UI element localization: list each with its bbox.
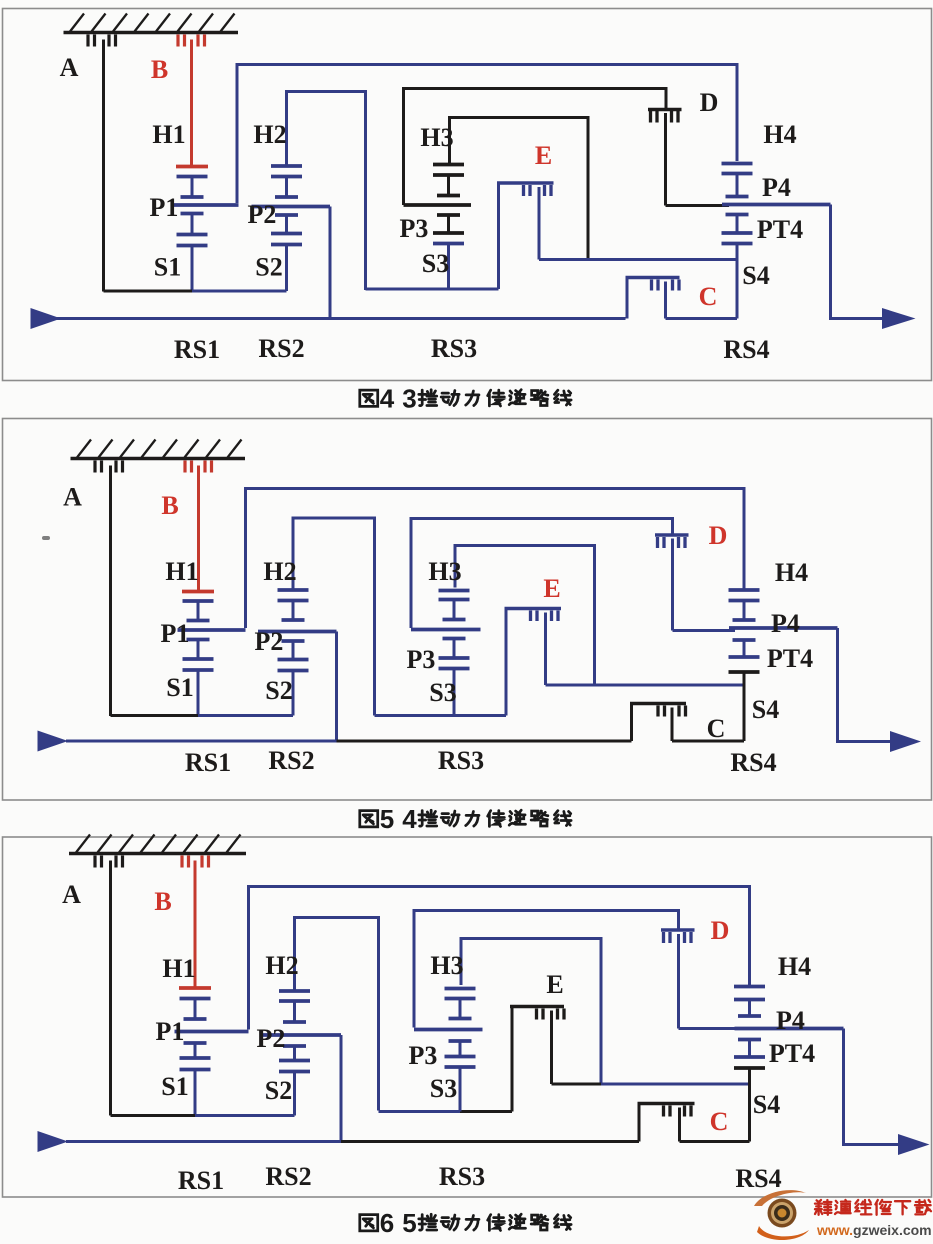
svg-text:P1: P1	[150, 193, 179, 222]
wire P2 down fig2	[335, 632, 338, 742]
wire D to P4 fig2	[673, 629, 736, 632]
input arrow fig2	[38, 731, 69, 752]
brake B (engaged, red) clutch pack under case	[178, 35, 205, 167]
svg-text:A: A	[60, 53, 79, 82]
clutch C center stem fig3	[678, 1108, 681, 1142]
wire outer loop P3-D fig3 (blue)	[414, 911, 679, 1028]
ground (transmission case) hatched bar	[69, 835, 246, 854]
svg-text:4: 4	[380, 384, 395, 414]
svg-text:D: D	[700, 88, 719, 117]
wire S4 stem black fig3	[748, 1068, 751, 1142]
wire S1-S2 sun rail (blue part)	[192, 290, 287, 293]
caption: figure 4, gear 3	[360, 384, 571, 414]
brake D stem fig2	[671, 539, 674, 631]
svg-text:S3: S3	[422, 249, 449, 278]
figure 2 frame	[3, 419, 932, 801]
clutch E comb fig3 (black, released)	[510, 1007, 564, 1020]
svg-text:P3: P3	[400, 214, 429, 243]
svg-text:www.gzweix.com: www.gzweix.com	[816, 1222, 932, 1238]
brake A (fig2) clutch pack under case	[95, 461, 123, 717]
svg-text:H3: H3	[430, 951, 463, 980]
svg-text:RS4: RS4	[730, 748, 776, 777]
wire junction to S4 blue fig3	[601, 1083, 750, 1086]
svg-text:RS2: RS2	[258, 334, 304, 363]
gearset RS4	[722, 174, 831, 244]
brake D stem	[664, 113, 667, 206]
svg-text:E: E	[535, 141, 552, 170]
gearset RS4 fig2	[729, 601, 838, 673]
wire S3 rail black part to E fig3	[460, 1110, 512, 1113]
clutch E left stem fig2	[505, 609, 508, 716]
svg-text:H2: H2	[265, 951, 298, 980]
wire brake D to P4 (black)	[666, 204, 730, 207]
wire input rail blue fig2	[66, 740, 337, 743]
svg-text:H4: H4	[778, 952, 811, 981]
svg-text:5: 5	[402, 1208, 416, 1238]
svg-text:D: D	[711, 916, 730, 945]
gearset RS2 fig3	[260, 991, 342, 1116]
svg-text:H1: H1	[162, 954, 195, 983]
wire S4 stem black fig2	[743, 672, 746, 741]
wire H2 hook: H2 up, across, down to S3 rail	[287, 92, 366, 291]
brake D comb fig3 (engaged)	[661, 930, 695, 943]
svg-text:S1: S1	[154, 253, 181, 282]
svg-text:P1: P1	[156, 1017, 185, 1046]
svg-text:P2: P2	[248, 200, 277, 229]
wire S3 rail blue part fig3	[379, 1110, 462, 1113]
watermark text 精通维修下载	[815, 1200, 831, 1215]
svg-text:C: C	[707, 714, 726, 743]
svg-text:D: D	[709, 521, 728, 550]
svg-text:PT4: PT4	[767, 644, 813, 673]
gearset RS3	[404, 165, 472, 291]
wire outer loop P3-D fig2 (blue)	[411, 519, 673, 629]
svg-text:S1: S1	[166, 673, 193, 702]
gearset RS3 fig2	[411, 591, 481, 716]
wire output fig2	[838, 628, 891, 742]
svg-text:P4: P4	[771, 609, 800, 638]
brake A clutch pack under case	[88, 35, 116, 292]
svg-text:P4: P4	[762, 173, 791, 202]
svg-text:E: E	[546, 970, 563, 999]
svg-text:S1: S1	[161, 1072, 188, 1101]
svg-text:B: B	[151, 55, 168, 84]
svg-text:RS3: RS3	[438, 746, 484, 775]
svg-text:H4: H4	[775, 558, 808, 587]
svg-text:S2: S2	[265, 1076, 292, 1105]
svg-text:P3: P3	[409, 1041, 438, 1070]
caption: figure 6, gear 5	[360, 1208, 571, 1238]
wire C to S4 black fig2	[672, 740, 744, 743]
svg-text:S3: S3	[429, 678, 456, 707]
wire clutch E to S4/PT4	[539, 258, 737, 261]
figure 3 frame	[3, 837, 932, 1197]
output arrow fig2	[890, 731, 921, 752]
gearset RS4 T-bar	[722, 162, 753, 166]
wire S3 rail fig2	[375, 714, 507, 717]
wire P2 down fig3	[340, 1035, 343, 1142]
wire E to S4 fig2	[546, 684, 745, 687]
svg-text:4: 4	[402, 804, 417, 834]
clutch E center stem fig2	[544, 613, 547, 686]
svg-text:RS3: RS3	[431, 334, 477, 363]
svg-text:C: C	[710, 1107, 729, 1136]
svg-text:S4: S4	[753, 1090, 780, 1119]
wire A/S1 rail black fig2	[111, 714, 200, 717]
gearset RS1	[172, 177, 239, 292]
output arrow	[882, 308, 916, 329]
clutch E center stem	[538, 187, 541, 260]
svg-text:B: B	[154, 887, 171, 916]
wire A/S1 rail black fig3	[111, 1114, 197, 1117]
wire H2 hook fig2	[293, 518, 375, 716]
wire S3 rail to clutch E	[366, 288, 499, 291]
wire clutch C to S4	[666, 317, 738, 320]
svg-text:P1: P1	[161, 619, 190, 648]
clutch E (engaged) comb	[497, 183, 554, 196]
clutch E left stem from S3 rail	[497, 183, 500, 289]
brake D stem fig3	[677, 934, 680, 1029]
svg-text:RS2: RS2	[268, 746, 314, 775]
clutch C riser fig3 (black)	[638, 1104, 641, 1142]
svg-text:RS1: RS1	[178, 1166, 224, 1195]
svg-text:A: A	[62, 880, 81, 909]
wire input rail black to C fig3	[341, 1140, 639, 1143]
svg-text:3: 3	[402, 384, 416, 414]
wire inner loop H3 fig2 (blue)	[455, 546, 595, 685]
wire input rail blue fig3	[66, 1140, 342, 1143]
svg-text:P2: P2	[255, 627, 284, 656]
svg-text:PT4: PT4	[757, 215, 803, 244]
svg-text:E: E	[543, 574, 560, 603]
svg-text:RS4: RS4	[723, 335, 769, 364]
svg-text:5: 5	[380, 804, 394, 834]
svg-text:RS1: RS1	[185, 748, 231, 777]
brake B (fig3, engaged red) clutch pack under case	[182, 856, 209, 989]
svg-text:RS4: RS4	[735, 1164, 781, 1193]
clutch C center stem fig2	[671, 708, 674, 742]
svg-text:H1: H1	[165, 557, 198, 586]
gearset RS2	[252, 166, 331, 291]
svg-text:6: 6	[380, 1208, 394, 1238]
brake B output T-bar fig3	[179, 986, 211, 990]
brake B (fig2, engaged red) clutch pack under case	[185, 461, 212, 592]
ground (transmission case) hatched bar	[64, 14, 239, 33]
wire H2 hook fig3	[295, 918, 379, 1111]
svg-text:H1: H1	[152, 120, 185, 149]
wire outer loop: P3 up, across to brake D (black)	[404, 89, 667, 206]
svg-text:P2: P2	[257, 1024, 286, 1053]
wire inner loop H3 fig3 (blue)	[461, 939, 601, 1085]
gearset RS4 T-bar fig3	[734, 985, 765, 989]
brake B output T-bar fig2	[182, 590, 214, 594]
clutch E left stem fig3	[511, 1007, 514, 1112]
svg-text:H3: H3	[420, 123, 453, 152]
wire output fig3	[844, 1029, 899, 1145]
clutch E comb fig2 (engaged)	[505, 609, 562, 622]
wire output: P4 right, down, to output arrow	[831, 205, 884, 319]
svg-text:P4: P4	[776, 1006, 805, 1035]
svg-text:P3: P3	[407, 645, 436, 674]
svg-text:RS3: RS3	[439, 1162, 485, 1191]
svg-text:H2: H2	[263, 557, 296, 586]
figure 1 frame	[3, 9, 932, 381]
wire C to S4 black fig3	[680, 1140, 750, 1143]
gearset RS2 fig2	[258, 590, 337, 716]
wire D to P4 fig3	[679, 1027, 741, 1030]
svg-text:S4: S4	[752, 695, 779, 724]
input arrow fig3	[38, 1131, 69, 1152]
svg-text:S2: S2	[265, 676, 292, 705]
svg-text:RS2: RS2	[265, 1162, 311, 1191]
svg-text:RS1: RS1	[174, 335, 220, 364]
gearset RS3 fig3	[414, 989, 483, 1112]
wire input top rail fig3	[249, 887, 750, 1030]
clutch C (engaged) riser from input rail	[626, 278, 629, 319]
brake B output T-bar to H1	[176, 165, 208, 169]
wire E to junction black fig3	[552, 1083, 602, 1086]
brake A (fig3) clutch pack under case	[95, 856, 123, 1116]
gzweix watermark logo: eye swoosh	[754, 1190, 809, 1240]
wire input rail	[55, 317, 626, 320]
svg-text:B: B	[161, 491, 178, 520]
wire A/S1 sun rail (black part)	[104, 290, 194, 293]
svg-text:H2: H2	[253, 120, 286, 149]
output arrow fig3	[898, 1134, 930, 1155]
gearset RS4 T-bar fig2	[729, 588, 760, 592]
wire input top rail fig2	[246, 489, 745, 629]
svg-text:H4: H4	[763, 120, 796, 149]
svg-text:S4: S4	[742, 261, 769, 290]
clutch C center stem	[664, 282, 667, 319]
wire input-shaft top rail: P1 up, across, down to H4 T-bar	[237, 65, 737, 204]
wire P2 down to input rail	[329, 207, 332, 319]
gearset RS4 fig3	[734, 1000, 844, 1069]
wire S1-S2 rail blue fig3	[195, 1114, 295, 1117]
ground (transmission case) hatched bar	[71, 440, 246, 459]
wire inner loop: H3 up, across, down to S4 rail (black)	[450, 118, 589, 260]
svg-text:A: A	[63, 483, 82, 512]
svg-text:S2: S2	[255, 253, 282, 282]
gearset RS1 fig2	[178, 601, 246, 716]
wire input rail black to C fig2	[337, 740, 632, 743]
wire S4 stem down to output rail	[736, 244, 739, 319]
clutch E center stem fig3	[550, 1011, 553, 1085]
svg-text:S3: S3	[430, 1074, 457, 1103]
gearset RS1 fig3	[175, 999, 249, 1116]
svg-text:PT4: PT4	[769, 1039, 815, 1068]
brake D comb fig2 (engaged)	[655, 535, 689, 548]
svg-text:C: C	[699, 282, 718, 311]
input arrow	[31, 308, 62, 329]
scan speck fig2	[42, 536, 50, 540]
caption: figure 5, gear 4	[360, 804, 571, 834]
wire S1-S2 rail blue fig2	[198, 714, 293, 717]
svg-text:H3: H3	[428, 557, 461, 586]
clutch C riser fig2 (black)	[630, 704, 633, 742]
